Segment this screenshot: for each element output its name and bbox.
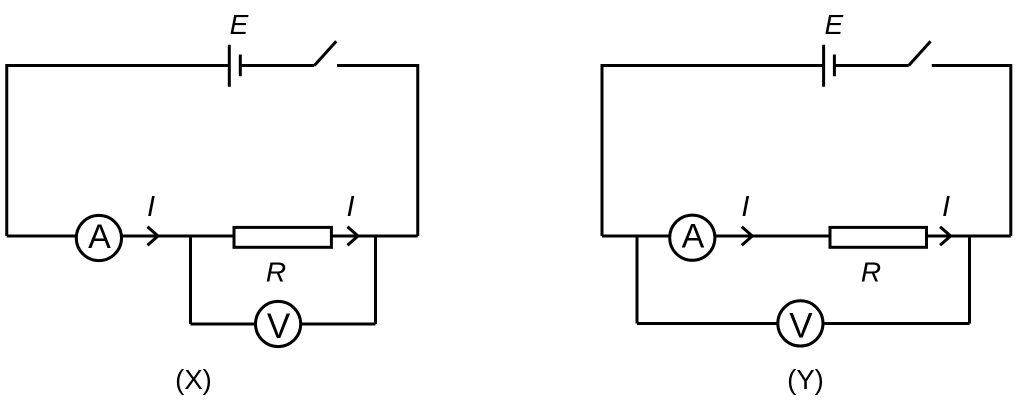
svg-text:(Y): (Y) — [787, 364, 824, 395]
svg-text:I: I — [346, 191, 354, 223]
svg-text:I: I — [147, 191, 155, 223]
svg-text:E: E — [824, 9, 843, 40]
voltmeter V (Y) circle — [778, 301, 823, 346]
switch S (X) blade — [314, 41, 336, 65]
current arrow I (Y left) — [742, 227, 753, 246]
svg-text:R: R — [266, 257, 286, 288]
svg-text:I: I — [741, 191, 749, 223]
svg-text:E: E — [230, 9, 249, 40]
wire: circuit Y main loop (left, top, right sides) — [602, 66, 1011, 237]
ammeter A (Y) circle — [670, 215, 715, 260]
ammeter A (X) circle — [76, 215, 121, 260]
battery E (Y) long plate — [822, 45, 825, 87]
current arrow I (X left) — [148, 227, 159, 246]
switch S (Y) blade — [909, 41, 931, 65]
battery E (X) short plate — [239, 55, 242, 77]
voltmeter V (X) circle — [256, 301, 301, 346]
wire: circuit Y bottom conductor — [602, 235, 1011, 238]
svg-text:A: A — [682, 218, 705, 256]
wire: X voltmeter branch left drop — [189, 236, 192, 324]
current arrow I (Y right) — [940, 227, 951, 246]
resistor R (Y) box — [830, 227, 927, 247]
svg-text:V: V — [267, 307, 291, 346]
svg-text:A: A — [88, 218, 111, 256]
wire: Y voltmeter branch right drop — [968, 236, 971, 324]
wire: X voltmeter branch right drop — [374, 236, 377, 324]
battery E (X) long plate — [228, 45, 231, 87]
wire: circuit X bottom conductor — [7, 235, 418, 238]
wire: Y voltmeter branch left drop — [636, 236, 639, 324]
svg-text:I: I — [942, 191, 950, 223]
wire: circuit X main loop (left, top, right sides) — [7, 66, 418, 237]
svg-text:(X): (X) — [175, 364, 212, 395]
wire: X voltmeter branch bottom conductor — [191, 323, 376, 326]
current arrow I (X right) — [348, 227, 359, 246]
wire: Y voltmeter branch bottom conductor — [637, 322, 970, 325]
svg-text:V: V — [789, 306, 813, 345]
battery E (Y) short plate — [833, 55, 836, 77]
resistor R (X) box — [234, 227, 331, 247]
svg-text:R: R — [861, 257, 881, 288]
